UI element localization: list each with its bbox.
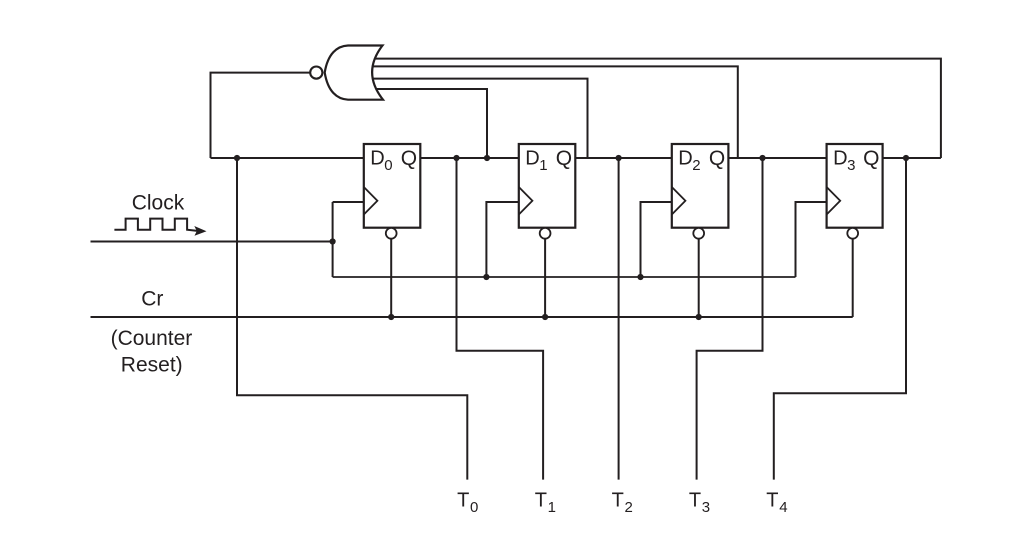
reset bubble D0: [386, 228, 397, 239]
junction Cr at D0 reset: [388, 314, 394, 320]
svg-text:0: 0: [384, 157, 392, 174]
svg-text:Reset): Reset): [121, 353, 183, 376]
NOR gate U1 body: [325, 46, 383, 100]
junction T2 tap on node Q1: [616, 155, 622, 161]
wire bus NOR output node to D0 D input: [211, 157, 364, 159]
reset bubble D1: [540, 228, 551, 239]
junction clock distribution at D1 tap: [483, 274, 489, 280]
wire T2 output: [618, 158, 620, 480]
svg-text:4: 4: [779, 499, 787, 516]
clock wedge D3: [827, 187, 841, 215]
wire NOR input 2 from node Q2: [372, 66, 738, 158]
NOR gate U1 output bubble: [310, 67, 322, 79]
svg-text:T: T: [689, 489, 701, 511]
wire D0 reset pin to Cr: [390, 239, 392, 317]
wire bus Q1: D1 Q output to D2 D input: [575, 157, 672, 159]
reset bubble D2: [693, 228, 704, 239]
wire NOR input 3 from node Q1: [372, 79, 588, 158]
junction clock line at D0 riser: [330, 238, 336, 244]
svg-text:Clock: Clock: [132, 192, 185, 215]
wire clock tap to D3 clock pin: [796, 202, 827, 277]
clock waveform symbol: [114, 219, 197, 231]
svg-text:T: T: [535, 489, 547, 511]
svg-text:D: D: [833, 148, 847, 170]
svg-text:1: 1: [548, 499, 556, 516]
wire bus Q3: D3 Q output to feedback corner: [883, 157, 941, 159]
wire clock tap to D1 clock pin: [486, 202, 518, 277]
wire D2 reset pin to Cr: [698, 239, 700, 317]
svg-text:Q: Q: [863, 147, 879, 170]
flip-flop D2: [672, 144, 729, 239]
svg-text:T: T: [457, 489, 469, 511]
svg-text:3: 3: [702, 499, 710, 516]
svg-text:D: D: [678, 148, 692, 170]
svg-text:3: 3: [847, 157, 855, 174]
clock waveform arrowhead: [194, 226, 206, 236]
wire clock tap to D2 clock pin: [641, 202, 672, 277]
wire clock stub to D0 clock pin: [333, 201, 364, 203]
clock wedge D0: [364, 187, 378, 215]
wire D3 reset pin to Cr: [852, 239, 854, 317]
clock wedge D1: [519, 187, 533, 215]
reset bubble D3: [847, 228, 858, 239]
flip-flop D0: [364, 144, 421, 239]
junction clock distribution at D2 tap: [637, 274, 643, 280]
wire NOR input 1 from node Q3: [374, 59, 941, 158]
flip-flop D3: [827, 144, 883, 239]
svg-text:2: 2: [692, 157, 700, 174]
svg-text:1: 1: [539, 157, 547, 174]
flip-flop D1: [519, 144, 576, 239]
junction NOR input 4 tap on node Q0: [484, 155, 490, 161]
wire clock riser at D0: [332, 202, 334, 277]
svg-text:T: T: [612, 489, 624, 511]
wire clock distribution line: [333, 276, 796, 278]
junction T1 tap on bus node Q0: [453, 155, 459, 161]
svg-text:Q: Q: [401, 147, 417, 170]
wire NOR input 4 from node Q0: [374, 89, 487, 158]
svg-text:Cr: Cr: [141, 287, 163, 310]
svg-text:D: D: [525, 148, 539, 170]
wire clock input line: [91, 241, 333, 243]
svg-text:T: T: [766, 489, 778, 511]
wire D1 reset pin to Cr: [544, 239, 546, 317]
svg-text:Q: Q: [556, 147, 572, 170]
wire T4 output: [774, 158, 906, 480]
svg-text:(Counter: (Counter: [111, 327, 193, 350]
clock wedge D2: [672, 187, 686, 215]
wire NOR output to D0 input: [211, 73, 318, 158]
wire Cr counter reset line: [91, 316, 853, 318]
wire T1 output: [457, 158, 544, 480]
junction T0 tap on bus: [234, 155, 240, 161]
junction T4 tap on node Q3: [903, 155, 909, 161]
svg-text:D: D: [370, 148, 384, 170]
svg-text:0: 0: [470, 499, 478, 516]
junction T3 tap on node Q2: [759, 155, 765, 161]
wire T3 output: [697, 158, 763, 480]
svg-text:Q: Q: [709, 147, 725, 170]
junction Cr at D1 reset: [542, 314, 548, 320]
junction Cr at D2 reset: [696, 314, 702, 320]
wire bus Q2: D2 Q output to D3 D input: [728, 157, 826, 159]
wire T0 output: [237, 158, 467, 480]
wire bus Q0: D0 Q output to D1 D input: [420, 157, 519, 159]
svg-text:2: 2: [625, 499, 633, 516]
